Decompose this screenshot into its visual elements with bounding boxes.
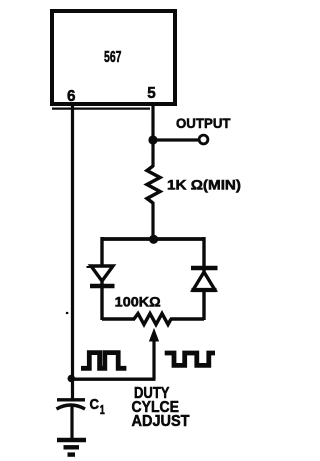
scan shadow line under box: [52, 107, 150, 109]
svg-text:5: 5: [147, 85, 156, 102]
svg-text:OUTPUT: OUTPUT: [176, 115, 231, 131]
wire bridge left upper: [100, 237, 103, 267]
node bridge top junction: [149, 235, 158, 244]
waveform icon right (starts high): [165, 353, 215, 365]
wire pin 5 vertical to resistor: [151, 104, 154, 167]
svg-text:567: 567: [104, 49, 122, 66]
scan speck left of lower-left bridge wire: [66, 312, 68, 314]
wire output horizontal: [153, 138, 198, 141]
svg-text:100KΩ: 100KΩ: [115, 294, 161, 310]
wire wiper to left rail: [71, 378, 156, 381]
wire pin 6 vertical: [71, 104, 74, 400]
wire bridge right upper: [202, 237, 205, 272]
wire bridge right lower: [202, 290, 205, 320]
wire cap to ground: [70, 406, 73, 440]
node junction on left rail: [68, 375, 76, 383]
waveform icon left (starts low): [81, 353, 126, 369]
svg-text:1: 1: [100, 403, 105, 417]
diode D2 (right, anode down) triangle: [193, 272, 215, 290]
svg-text:1K Ω(MIN): 1K Ω(MIN): [167, 177, 241, 193]
svg-text:ADJUST: ADJUST: [132, 413, 190, 430]
wire bridge left lower: [100, 281, 103, 320]
wire bridge bottom left: [102, 317, 135, 320]
node output junction: [148, 135, 157, 144]
output terminal circle: [199, 135, 208, 144]
op-amp U1 567 tone decoder box: [52, 11, 175, 104]
svg-text:6: 6: [67, 88, 76, 105]
diode D1 cathode bar: [90, 284, 115, 288]
diode D2 base bar: [192, 288, 217, 292]
capacitor C1 curved plate: [57, 405, 86, 409]
wire resistor to bridge top: [151, 202, 154, 239]
ground symbol: [57, 438, 86, 442]
wiper stem wire: [152, 338, 155, 379]
potentiometer R2 100K zigzag: [134, 314, 171, 325]
capacitor C1 top plate: [57, 398, 85, 401]
diode D2 cathode bar (top): [191, 266, 218, 270]
resistor R1 1K zigzag: [147, 166, 160, 203]
wire bridge bottom right: [170, 317, 204, 320]
diode D1 (left, anode up) triangle: [91, 266, 113, 281]
potentiometer wiper arrow head: [150, 329, 159, 341]
scan speck left of D1: [87, 266, 91, 268]
wire bridge top horizontal: [102, 237, 204, 241]
svg-text:C: C: [90, 397, 100, 413]
